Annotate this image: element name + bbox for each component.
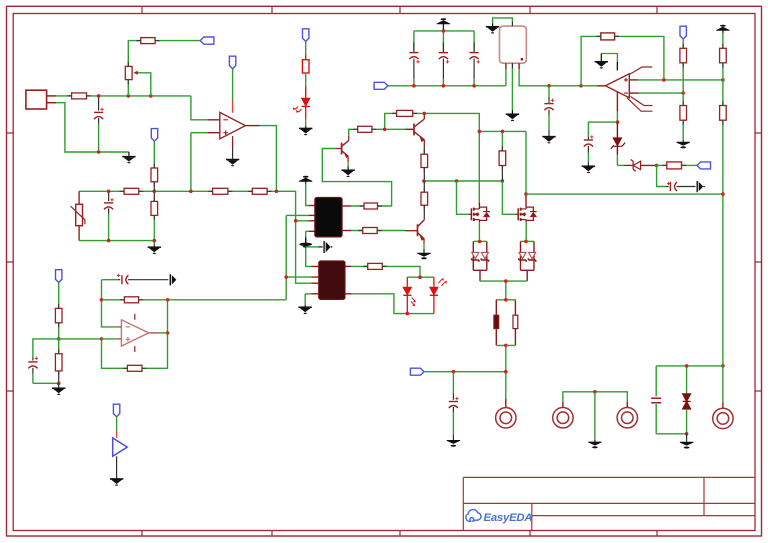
ground under divider <box>52 388 65 395</box>
junction <box>655 164 659 168</box>
pin terminal TP4 <box>722 402 724 408</box>
resistor R25 <box>720 80 727 120</box>
wire right power rail down <box>722 120 724 366</box>
wire M1 source <box>478 222 480 241</box>
wire U6 top pin to gnd <box>493 18 513 24</box>
capacitor C5 <box>470 43 480 86</box>
mosfet M1 <box>468 207 490 223</box>
resistor R14 <box>421 154 428 167</box>
ground under thermistor rail <box>148 245 161 254</box>
wire M2 source <box>525 222 527 241</box>
wire to net arrow <box>306 246 319 248</box>
power flag VCC1 <box>299 176 312 184</box>
wire U5 feedback left <box>581 36 601 85</box>
resistor R26 <box>55 308 62 322</box>
junction <box>100 298 104 302</box>
wire U5 output pin <box>581 85 597 87</box>
wire cap feedback row <box>102 279 119 281</box>
pin U3 left pins <box>312 266 319 293</box>
wire diode boxes bottom <box>480 281 527 300</box>
junction <box>153 239 157 243</box>
wire J1 pin1 to R2 <box>56 95 72 97</box>
ground under R23 <box>677 140 690 148</box>
wire D1 to D2 <box>617 164 624 166</box>
connector J1 <box>26 90 47 109</box>
junction <box>423 112 427 116</box>
resistor R16 <box>499 151 506 181</box>
wire U2 pin3 vertical <box>286 215 308 299</box>
resistor R29 <box>127 365 142 371</box>
net flag F5 bright chain <box>302 29 308 42</box>
junction <box>107 190 111 194</box>
pin J1-1 <box>47 95 56 97</box>
net arrow flag portA <box>170 274 176 285</box>
resistor R27 <box>55 339 62 383</box>
wire R21 to flag F7 <box>682 164 698 166</box>
wire center gnd stem <box>594 392 596 440</box>
wire D2 node to R21 <box>657 164 667 166</box>
junction <box>383 128 387 132</box>
svg-text:EasyEDA: EasyEDA <box>484 512 533 524</box>
capacitor C2 <box>104 191 114 240</box>
pin TP3 <box>626 402 628 408</box>
wire U2 pin7 to Q3 base <box>351 230 405 232</box>
op-amp U5 <box>605 67 652 111</box>
wire LED1 to gnd <box>305 119 307 126</box>
junction <box>107 239 111 243</box>
wire U3 pin9 to LED loop bottom <box>351 294 407 314</box>
wire U1 output down to rail <box>260 126 277 192</box>
wire U4 minus node <box>102 280 117 327</box>
wire flag row y371 <box>424 371 506 373</box>
junction <box>294 219 298 223</box>
junction <box>189 190 193 194</box>
capacitor C1 <box>94 96 104 152</box>
wire U2 pin4 <box>296 221 312 283</box>
wire flag F10 to port <box>116 417 118 431</box>
pin U2 pin1 <box>309 205 315 207</box>
ground under TVS <box>680 442 693 448</box>
op-amp U4 <box>121 314 148 352</box>
capacitor C6 <box>544 86 554 136</box>
junction rail dots <box>97 94 101 98</box>
thermistor RT1 <box>71 191 85 240</box>
junction <box>721 364 725 368</box>
pin TP2 <box>562 402 564 408</box>
LED LED3 <box>430 277 447 313</box>
wire flag F8 to R22 <box>682 39 684 48</box>
junction <box>127 94 131 98</box>
pin Q1 base <box>406 128 415 130</box>
ground at U5 top <box>595 54 618 71</box>
junction <box>478 240 482 244</box>
wire R14 to rail181 <box>423 168 425 182</box>
pin U1 inputs <box>207 120 220 133</box>
pin terminal TP1 <box>505 398 507 407</box>
junction <box>504 370 508 374</box>
junction <box>547 84 551 88</box>
resistor R11 <box>397 110 413 116</box>
capacitor C11 <box>28 357 38 384</box>
wire rail y86 left part <box>388 69 506 86</box>
wire thermistor bottom rail <box>79 241 154 246</box>
wire node to C11 <box>33 339 59 357</box>
net flag F9 <box>56 270 62 283</box>
wire LED loop top <box>407 276 434 278</box>
junction <box>97 150 101 154</box>
junction <box>418 275 422 279</box>
pin J1-2 <box>47 102 56 104</box>
pin U6 right bottom <box>518 63 520 69</box>
ground under U3 <box>299 306 312 315</box>
wire Q3 emitter stem <box>423 243 425 248</box>
wire R24 to junction <box>722 63 724 80</box>
netport NP1 <box>113 438 128 456</box>
wire flag F5 to R3 <box>305 41 307 54</box>
junction <box>153 190 157 194</box>
wire U5 plus row <box>638 79 723 81</box>
capacitor C10 <box>651 366 661 434</box>
wire node to U4 plus <box>59 338 102 340</box>
ground at U6 top <box>486 24 499 34</box>
resistor R13 <box>363 228 378 234</box>
wire R19 to LED loop top <box>382 266 420 277</box>
pin U4 minus <box>116 326 121 328</box>
resistor R19 <box>368 263 383 269</box>
wire long feedback net to lower op-amp <box>168 299 287 301</box>
junction <box>57 337 61 341</box>
wire flag F3 to U1 vcc pin <box>232 69 234 100</box>
junction <box>478 130 482 134</box>
junction <box>504 279 508 283</box>
net flag F3 <box>229 56 235 69</box>
pin U6 mid bottom <box>511 63 513 68</box>
wire U5 bottom to node <box>616 112 618 123</box>
junction <box>616 120 620 124</box>
net flag F10 <box>113 404 119 417</box>
junction <box>524 240 528 244</box>
wire resistor pair to flag row <box>505 345 507 398</box>
ground under netport <box>110 479 123 486</box>
wire U4 plus node <box>102 339 128 368</box>
resistor R18 body <box>513 315 518 328</box>
transistor Q5 <box>335 136 349 162</box>
junction <box>501 130 505 134</box>
component lead stubs <box>59 36 723 375</box>
LED LED1 <box>293 98 310 119</box>
wire U6 right pin to rail <box>519 69 581 86</box>
net flag F8 <box>680 26 686 39</box>
resistor R22 <box>680 48 687 63</box>
wire U4 output to node <box>160 332 168 334</box>
junction <box>504 344 508 348</box>
wire R11 to Q1 collector node <box>413 113 480 131</box>
ground under C6 <box>542 137 555 144</box>
pin U3 right pin9 <box>345 293 352 295</box>
junction <box>442 29 446 33</box>
resistor R24 <box>720 48 727 63</box>
resistor R1 <box>141 38 155 44</box>
wire C11 bottom to node <box>33 382 59 384</box>
junction <box>524 192 528 196</box>
junction <box>501 179 505 183</box>
junction <box>593 390 597 394</box>
wire flag F2 to R6 <box>153 142 155 166</box>
wire mosfet top rail <box>457 131 527 214</box>
resistor R15 <box>421 181 428 220</box>
diode D1 <box>611 122 625 165</box>
potentiometer RP1 <box>125 66 138 79</box>
junction <box>166 298 170 302</box>
resistor R21 <box>667 162 682 169</box>
net flag F4 <box>410 368 424 375</box>
ground under C9 <box>447 440 460 446</box>
resistor pair box R17 R18 <box>496 300 515 346</box>
wire U5 minus row <box>639 92 684 94</box>
wire pot wiper <box>139 73 151 96</box>
wire node to C7 <box>588 122 617 136</box>
pin U5 output <box>597 85 605 87</box>
resistor R12 <box>364 203 378 209</box>
title block lines <box>463 477 755 530</box>
wire TP2 TP3 link <box>563 392 627 402</box>
pin U6 left bottom <box>505 63 507 69</box>
junction <box>721 78 725 82</box>
ground under Q3 <box>417 249 430 259</box>
junction <box>721 192 725 196</box>
diode pair box ZD2 <box>521 241 535 281</box>
pin U6 mark <box>521 58 524 61</box>
net arrow flag portC <box>697 181 705 192</box>
junction <box>412 84 416 88</box>
zener D3 <box>472 252 479 261</box>
net flag F2 <box>151 129 157 142</box>
terminal TP3 <box>617 408 637 428</box>
wire U2 pin5 down <box>306 231 312 266</box>
resistor R7 <box>151 165 158 191</box>
junction <box>275 190 279 194</box>
EasyEDA logo cloud <box>466 510 481 522</box>
terminal TP1 <box>496 408 516 428</box>
pin U5 minus <box>629 92 638 94</box>
net flag F6 <box>374 82 388 89</box>
wire flag F9 to R26 <box>58 283 60 309</box>
wire U3 pin2 from junction <box>286 276 311 278</box>
mosfet M2 <box>515 207 537 223</box>
resistor R5 <box>124 188 139 194</box>
wire node to C8 <box>657 165 667 186</box>
capacitor C4 <box>439 43 449 86</box>
ground lens near U2 <box>299 238 312 248</box>
wire caps trio top rail <box>414 31 474 50</box>
wire C10 bottom to TVS <box>656 433 686 435</box>
junction <box>166 331 170 335</box>
junction <box>442 84 446 88</box>
resistor R8 <box>213 188 228 194</box>
diode D2 <box>631 160 657 172</box>
pin U1 gnd <box>232 142 234 148</box>
ground under C1 rail <box>122 152 135 163</box>
wire U2 pin6 to Q5 base <box>322 149 391 207</box>
wire TVS to gnd <box>686 434 688 442</box>
wire VCC1 to U2 pin1 <box>306 184 309 206</box>
transistor Q3 <box>406 220 425 244</box>
capacitor C3 <box>409 43 419 86</box>
junction <box>284 275 288 279</box>
wire node to gnd <box>58 383 60 388</box>
net flag F7 <box>697 162 711 169</box>
junction <box>422 179 426 183</box>
capacitor C12 horizontal <box>117 274 169 285</box>
wire U1 plus input <box>191 133 207 192</box>
resistor R9 <box>252 188 267 194</box>
wire U5 feedback right <box>615 36 664 80</box>
wire rail y191 <box>79 191 296 221</box>
junction <box>681 91 685 95</box>
pin netport top <box>116 431 118 438</box>
TVS diode D7 <box>683 366 691 434</box>
LED LED2 <box>403 277 415 313</box>
junction <box>455 179 459 183</box>
resistor R20 <box>601 33 615 40</box>
resistor R23 <box>680 93 687 120</box>
terminal TP2 <box>553 408 573 428</box>
wire U3 gnd pin <box>305 294 311 306</box>
wire R26 to node <box>58 323 60 339</box>
net arrow flag portB <box>318 241 332 253</box>
junction <box>57 382 61 386</box>
junction <box>579 84 583 88</box>
capacitor C8 horizontal <box>667 182 696 191</box>
pin U4 output <box>149 332 160 334</box>
capacitor C9 <box>449 372 459 440</box>
wire node to Q1 base <box>372 113 406 129</box>
pin U4 plus <box>116 338 121 340</box>
ground under C7 <box>582 166 595 173</box>
junction <box>685 364 689 368</box>
junction <box>662 78 666 82</box>
pin U2 right pin6 <box>342 205 351 207</box>
op-amp U1 <box>220 112 246 141</box>
wire U1 minus input <box>191 96 207 120</box>
resistor R6 vertical <box>151 191 158 240</box>
net flag F1 <box>200 37 214 44</box>
power flag VCC2 <box>437 18 450 31</box>
terminal TP4 <box>713 408 733 428</box>
regulator U6 <box>500 26 527 63</box>
pin U2 right pin7 <box>342 230 351 232</box>
diode pair box ZD1 <box>473 241 487 281</box>
pin U5 bottom <box>616 92 618 112</box>
ground under LED1 <box>299 126 312 135</box>
resistor R28 <box>124 297 138 303</box>
wire U1 gnd stem <box>232 148 234 159</box>
wire netport to gnd <box>116 456 118 478</box>
pin U3 right pin8 <box>345 265 352 267</box>
wire R22 to junction <box>682 63 684 93</box>
capacitor C7 <box>584 135 594 166</box>
wire R29 to output node <box>142 300 168 369</box>
pin U2 pin5 bottom-left <box>309 230 315 232</box>
resistor R2 <box>72 93 87 99</box>
wire VCC3 to R24 <box>722 33 724 48</box>
zener D4 <box>481 252 488 261</box>
transistor Q1 <box>414 113 424 146</box>
junction <box>452 370 456 374</box>
resistor R17 body <box>494 315 499 328</box>
resistor R10 <box>358 126 372 132</box>
IC U2 <box>315 198 342 237</box>
IC U3 <box>319 261 345 299</box>
wire main rail top-left <box>56 96 191 152</box>
junction <box>149 94 153 98</box>
power flag VCC3 <box>716 25 729 33</box>
wire rail 194 to right <box>526 193 723 195</box>
wire bottom right rail <box>656 366 723 402</box>
zener D6 <box>528 252 535 261</box>
ground under U1 <box>226 160 239 167</box>
pin U1 output <box>245 125 259 127</box>
ground under TP pair <box>588 440 601 448</box>
junction <box>685 432 689 436</box>
pin U5 plus <box>629 79 638 81</box>
resistor R3 bright <box>302 54 309 98</box>
wire Q5 emitter gnd stem <box>347 162 349 166</box>
pin U2 pin4 <box>309 220 315 222</box>
wire U6 mid pin to gnd <box>511 68 513 110</box>
junction <box>406 312 410 316</box>
ground under U6 <box>506 110 519 121</box>
wire minus feedback resistor row <box>102 299 168 301</box>
pin M2 drain <box>525 194 527 207</box>
ground under Q5 <box>341 167 354 177</box>
wire Q1 emitter to R14 <box>423 146 425 154</box>
pin U2 pin3 <box>309 214 315 216</box>
junction <box>100 337 104 341</box>
junction <box>504 298 508 302</box>
junction <box>472 84 476 88</box>
wire pot branch <box>128 41 200 96</box>
wire U3 pin8 to R19 <box>351 265 367 267</box>
wire Q5 collector to R10 <box>349 129 358 136</box>
pin U1 vcc <box>232 100 234 113</box>
zener D5 <box>519 252 526 261</box>
wire LED loop bottom <box>407 313 434 315</box>
wire rail181 <box>424 180 503 182</box>
wire R23 to gnd <box>682 120 684 140</box>
pin M1 drain <box>478 203 480 207</box>
